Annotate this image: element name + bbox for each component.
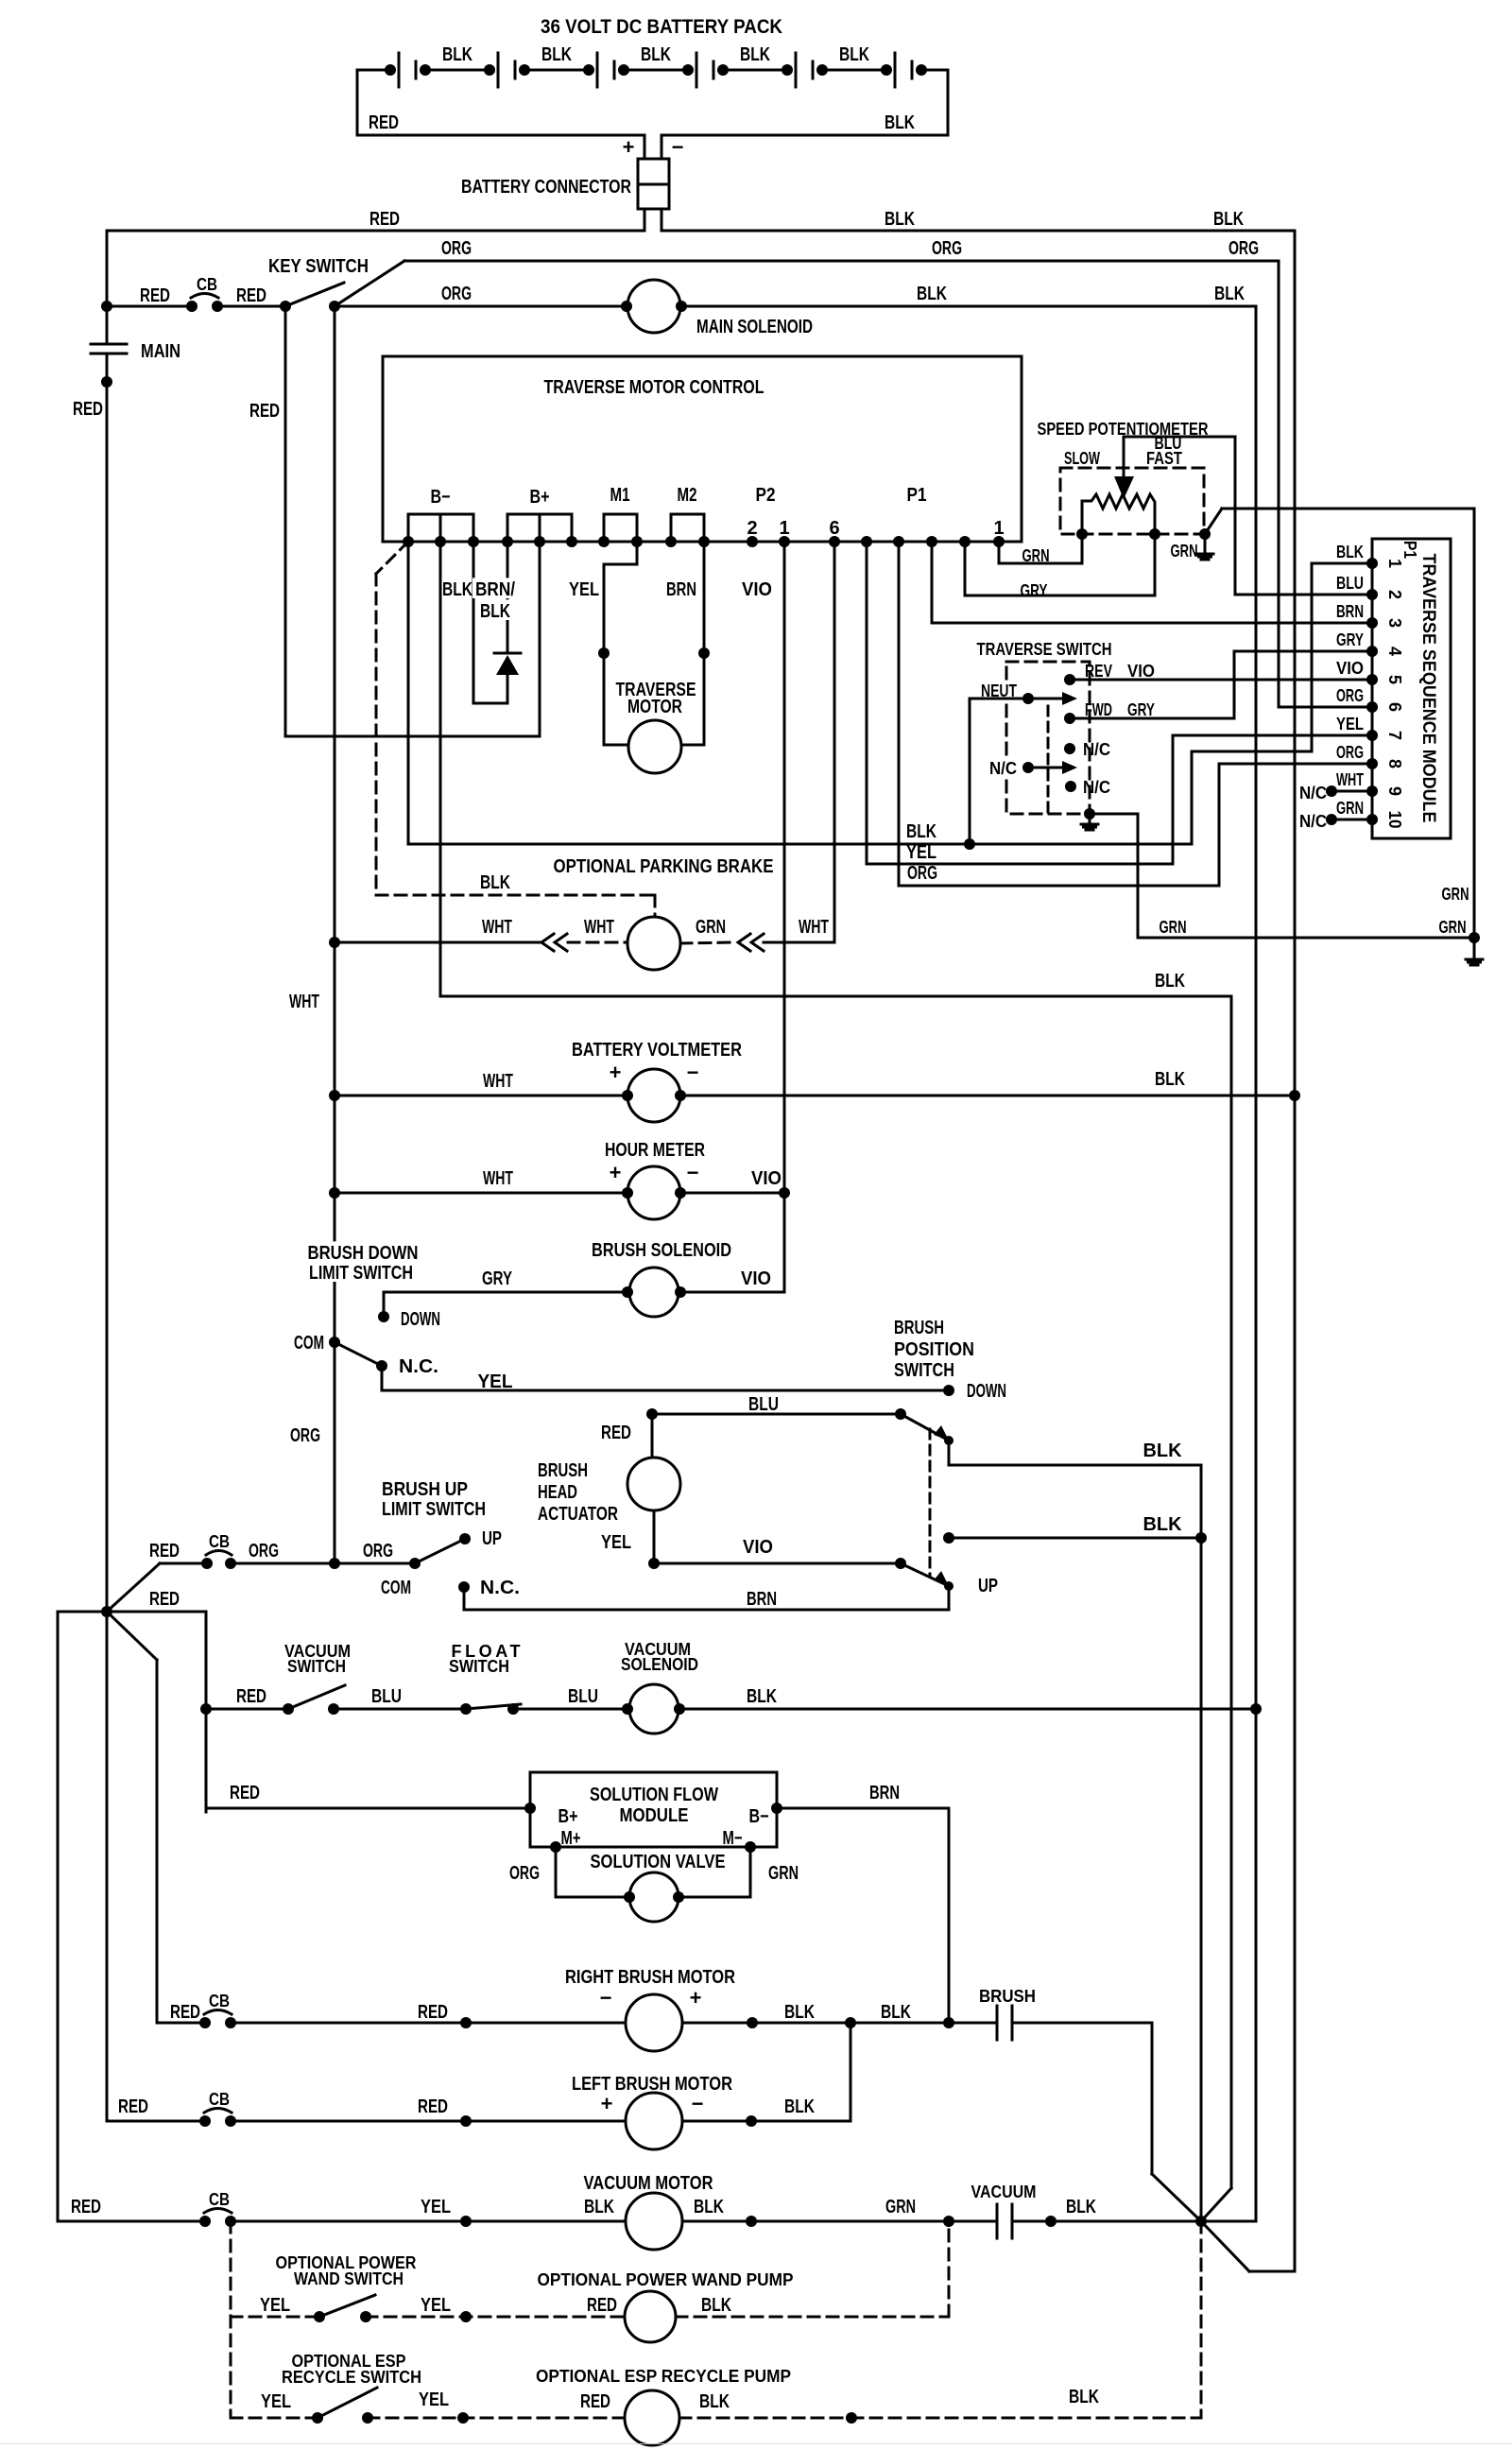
svg-text:ORG: ORG [290,1425,320,1446]
svg-text:ORG: ORG [441,238,472,259]
svg-text:N.C.: N.C. [399,1356,438,1377]
svg-text:N.C.: N.C. [480,1578,520,1598]
svg-text:BRN: BRN [869,1783,900,1803]
wire BLK voltmeter to battery negative [680,1095,1295,1097]
wire RED to solution flow and vacuum switch [107,1611,206,1613]
solution flow module box [530,1772,777,1847]
wire P1-6 vertical to parking brake [833,542,836,942]
svg-text:BRUSH UP: BRUSH UP [382,1479,468,1500]
svg-text:VIO: VIO [743,1537,773,1558]
battery cell B1 [398,53,401,87]
svg-text:ORG: ORG [1228,238,1259,259]
svg-text:−: − [600,1986,612,2010]
svg-text:SLOW: SLOW [1064,449,1100,468]
battery voltmeter [627,1069,680,1122]
svg-text:GRN: GRN [768,1863,799,1884]
wire battery interconnect BLK [420,64,431,76]
svg-text:WHT: WHT [799,917,829,938]
svg-text:VIO: VIO [1336,659,1364,678]
svg-text:YEL: YEL [421,2197,451,2217]
wire RED actuator [651,1414,654,1458]
wire BRN solution flow to brush junction [777,1807,949,1810]
module pin 7 YEL [1366,730,1378,741]
node BLK vacuum solenoid [1250,1703,1262,1715]
svg-text:BATTERY CONNECTOR: BATTERY CONNECTOR [461,177,631,198]
wire YEL dashed ESP [231,2417,318,2420]
svg-text:RED: RED [249,401,280,422]
svg-text:REV: REV [1085,662,1112,681]
svg-text:BLK: BLK [480,601,510,622]
svg-text:BLK: BLK [442,579,472,600]
svg-text:BLK: BLK [699,2391,730,2412]
svg-text:CB: CB [197,275,217,294]
wire ORG module pin 6 [1279,706,1372,709]
hour meter [627,1166,680,1219]
potentiometer R1 [1082,494,1155,534]
wire BRN P1 to module pin 3 [932,542,1372,623]
svg-text:3: 3 [1385,618,1404,628]
svg-text:GRN: GRN [696,917,726,938]
svg-text:6: 6 [829,518,839,539]
wire ORG key switch to main solenoid [335,305,627,308]
svg-text:GRY: GRY [1127,700,1155,719]
switch blade brush up [415,1540,463,1563]
svg-text:GRN: GRN [1442,885,1469,904]
switch pole COM brush up [409,1558,421,1569]
svg-text:−: − [672,135,684,159]
node pot fast [1149,528,1160,540]
wire RED left vertical [106,231,109,306]
wire BLK B- pin2 vertical [439,542,442,996]
wire GRY P1 to speed potentiometer [965,534,1155,595]
svg-text:DOWN: DOWN [967,1381,1006,1402]
svg-text:BLK: BLK [784,2002,815,2023]
svg-text:RED: RED [149,1541,180,1561]
svg-text:BLK: BLK [1214,284,1245,304]
svg-text:M+: M+ [561,1828,581,1849]
svg-text:RED: RED [71,2197,101,2217]
svg-text:LIMIT SWITCH: LIMIT SWITCH [382,1499,486,1520]
wire BLK right to left brush motor [850,2023,852,2121]
svg-text:BLK: BLK [839,44,869,65]
svg-text:FWD: FWD [1085,700,1112,719]
node ground bus [1469,932,1480,943]
module pin 5 VIO [1366,674,1378,685]
svg-text:B+: B+ [530,487,550,508]
svg-text:VIO: VIO [751,1168,782,1189]
svg-text:BLK: BLK [694,2197,724,2217]
wire battery positive RED [385,64,396,76]
svg-text:RED: RED [369,112,399,133]
svg-text:−: − [687,1061,699,1084]
terminal M1 [604,513,637,516]
wire VIO brush solenoid [680,1291,784,1294]
svg-text:YEL: YEL [419,2390,449,2410]
svg-text:BRN: BRN [1336,602,1364,621]
svg-text:N/C: N/C [1083,740,1110,759]
svg-text:RED: RED [580,2391,610,2412]
contact N/C upper [1064,743,1075,754]
node WHT brake junction [329,937,340,948]
node NEUT on BLK bus [964,838,975,850]
svg-text:BRN: BRN [747,1589,777,1610]
wire battery interconnect BLK [519,64,530,76]
svg-text:BLK: BLK [1069,2387,1099,2407]
wire BLK junction diagonal B- [1201,2188,1231,2221]
svg-text:YEL: YEL [569,579,599,600]
svg-text:BLK: BLK [885,209,915,230]
svg-text:1: 1 [1385,559,1404,568]
svg-text:MAIN: MAIN [141,341,180,362]
svg-text:RED: RED [73,399,103,420]
svg-text:BLU: BLU [1336,574,1364,593]
svg-text:9: 9 [1385,786,1404,796]
contact N/C lower [1065,781,1076,792]
contact UP brush up limit switch [459,1533,471,1544]
svg-text:WHT: WHT [1336,770,1364,789]
svg-text:WHT: WHT [482,917,512,938]
svg-text:YEL: YEL [421,2295,451,2316]
svg-text:ACTUATOR: ACTUATOR [538,1504,618,1525]
svg-text:BLK: BLK [1155,1069,1185,1090]
svg-text:UP: UP [482,1528,502,1549]
node pot slow [1076,528,1088,540]
svg-text:GRN: GRN [885,2197,916,2217]
svg-text:TRAVERSE SEQUENCE MODULE: TRAVERSE SEQUENCE MODULE [1418,554,1438,823]
wire ORG brush up [231,1562,415,1565]
wire GRN dashed brake [680,942,734,943]
svg-text:RED: RED [236,285,266,306]
svg-text:BLK: BLK [1143,1514,1183,1535]
svg-text:GRN: GRN [1160,918,1187,937]
svg-text:YEL: YEL [261,2391,291,2412]
svg-text:ORG: ORG [1336,743,1364,762]
vacuum switch [283,1703,294,1715]
wire ORG vertical to module pin 6 [1278,261,1280,707]
wire BLK junction to solenoid bus [1201,2220,1256,2223]
power wand pump [625,2291,676,2342]
diode D1 loop BRN/BLK [472,542,475,703]
svg-text:GRY: GRY [482,1268,512,1289]
node VIO hour meter [779,1187,790,1199]
wire RED to vacuum switch [206,1708,288,1711]
svg-text:RIGHT BRUSH MOTOR: RIGHT BRUSH MOTOR [565,1967,735,1988]
wire battery interconnect BLK [717,64,729,76]
svg-text:RED: RED [369,209,400,230]
svg-text:M−: M− [723,1828,743,1849]
svg-text:YEL: YEL [260,2295,290,2316]
ground traverse switch [1089,814,1091,823]
right brush motor [626,1994,682,2051]
svg-text:COM: COM [381,1578,411,1598]
contact FWD [1064,713,1075,724]
wire BRN brush position to N.C. [948,1586,951,1610]
battery cell B3 [596,53,599,87]
wire GRN pot to ground bus [1205,509,1222,534]
svg-text:BATTERY VOLTMETER: BATTERY VOLTMETER [572,1040,742,1061]
wire WHT switched vertical [334,306,336,1563]
wire BLK battery connector to right bus [661,209,663,231]
switch pole NEUT [978,681,1020,699]
svg-text:SWITCH: SWITCH [287,1657,346,1676]
svg-text:−: − [687,1161,699,1184]
svg-text:BRN: BRN [666,579,696,600]
brush solenoid [629,1268,679,1317]
svg-text:GRN: GRN [1336,799,1364,818]
module pin 2 BLU [1366,589,1378,600]
svg-text:RED: RED [236,1686,266,1707]
circuit breaker CB key switch [107,305,192,308]
wire BLK B- pin1 vertical [407,542,410,844]
node BLK main negative junction [1195,2216,1207,2227]
vacuum solenoid [629,1684,679,1734]
wire YEL vacuum motor [231,2220,626,2223]
wire BLK bus B- to module [408,843,1192,846]
circuit breaker CB vacuum motor [58,2220,205,2223]
terminal pins [403,536,414,547]
svg-text:GRN: GRN [1439,918,1467,937]
traverse sequence module box [1372,539,1451,838]
svg-text:+: + [610,1161,622,1184]
module pin 9 WHT [1366,785,1378,797]
svg-text:BLK: BLK [442,44,472,65]
wire YEL dashed ESP 2 [368,2417,625,2420]
svg-text:TRAVERSE SWITCH: TRAVERSE SWITCH [977,640,1112,659]
wire BLU vacuum to float switch [334,1708,466,1711]
wire WHT to parking brake [335,941,540,944]
svg-text:BLU: BLU [568,1686,598,1707]
svg-text:VIO: VIO [1127,662,1155,681]
svg-text:RED: RED [170,2002,200,2023]
wire BLU float to vacuum solenoid [513,1708,627,1711]
terminal B+ [507,513,572,516]
svg-text:B−: B− [749,1806,769,1827]
wire ORG P1 to module pin 8 [899,542,1372,886]
wire BLK vacuum connector to junction [1012,2220,1201,2223]
svg-text:BLK: BLK [784,2096,815,2117]
svg-text:OPTIONAL PARKING BRAKE: OPTIONAL PARKING BRAKE [554,856,774,877]
svg-text:MOTOR: MOTOR [627,697,682,717]
terminal B+ solution flow [524,1803,536,1814]
ground pot [1204,534,1207,552]
wire WHT module pin 9 N/C [1326,785,1337,797]
connector brake right [738,934,750,951]
svg-text:4: 4 [1385,647,1404,656]
switch blade brush position lower [895,1558,906,1569]
svg-text:DOWN: DOWN [401,1309,440,1330]
wire BLK B- lower bus [440,995,1231,998]
wire YEL dashed wand [231,2316,319,2319]
traverse switch link [1047,706,1050,812]
svg-text:M1: M1 [610,485,630,506]
svg-text:BLK: BLK [541,44,572,65]
svg-text:WHT: WHT [483,1168,513,1189]
svg-text:ORG: ORG [932,238,962,259]
svg-text:VACUUM: VACUUM [971,2183,1037,2201]
circuit breaker CB brush up [201,1558,213,1569]
left brush motor [626,2093,682,2149]
wire BLK dashed B- pin1 to parking brake [376,542,408,574]
svg-text:YEL: YEL [601,1532,631,1553]
svg-text:RED: RED [587,2295,617,2316]
svg-text:RED: RED [149,1589,180,1610]
svg-text:YEL: YEL [1336,715,1364,733]
wire BLK left brush motor [682,2120,850,2123]
svg-text:7: 7 [1385,731,1404,740]
wire RED to right brush motor CB [107,1612,157,1660]
svg-text:ORG: ORG [1336,686,1364,705]
svg-text:CB: CB [209,2190,230,2209]
svg-text:BLK: BLK [917,284,947,304]
module pin 10 GRN [1366,814,1378,825]
svg-text:RED: RED [418,2096,448,2117]
wire BLU actuator [646,1408,658,1420]
wire VIO REV to module pin 5 [1070,679,1372,682]
contact REV [1064,674,1075,685]
wire battery negative BLK [916,64,927,76]
wire BLK brush position upper [948,1441,951,1465]
svg-text:5: 5 [1385,675,1404,684]
svg-text:VIO: VIO [742,579,772,600]
svg-text:WHT: WHT [289,992,319,1012]
contact DOWN brush position switch [943,1385,954,1396]
node WHT hour meter [329,1187,340,1199]
svg-text:MAIN SOLENOID: MAIN SOLENOID [696,317,813,337]
svg-text:BLK: BLK [740,44,770,65]
terminal M- solution flow [745,1841,756,1853]
svg-text:UP: UP [978,1576,998,1596]
traverse motor control box [383,356,1022,542]
terminal B- solution flow [771,1803,782,1814]
svg-text:HOUR METER: HOUR METER [605,1140,705,1161]
svg-text:SOLUTION VALVE: SOLUTION VALVE [591,1852,726,1872]
wire RED to vacuum motor CB [58,1611,107,1613]
svg-text:N/C: N/C [1083,778,1110,797]
wire GRN P1-1 to speed potentiometer [999,534,1082,563]
battery cell B5 [795,53,798,87]
svg-text:BRUSH SOLENOID: BRUSH SOLENOID [592,1240,731,1261]
svg-text:1: 1 [779,518,789,539]
svg-text:HEAD: HEAD [538,1482,577,1503]
traverse link brush position [929,1429,932,1577]
svg-text:GRN: GRN [1022,546,1050,565]
svg-text:ORG: ORG [249,1541,279,1561]
svg-text:BLK: BLK [701,2295,731,2316]
svg-text:RED: RED [418,2002,448,2023]
svg-text:GRY: GRY [1021,581,1048,600]
terminal M2 [671,513,704,516]
wire YEL dashed wand 2 [366,2316,625,2319]
svg-text:BLK: BLK [1066,2197,1096,2217]
solution valve [629,1872,679,1922]
page edge artifact [0,2443,1512,2444]
svg-text:BLK: BLK [584,2197,614,2217]
svg-text:TRAVERSE MOTOR CONTROL: TRAVERSE MOTOR CONTROL [544,377,765,398]
wire RED to brush up CB [107,1563,160,1612]
connector brake left [541,934,554,951]
wire BLU wiper to module pin 2 [1124,437,1372,595]
svg-text:P2: P2 [756,485,776,506]
wire YEL M1 to traverse motor [604,542,637,745]
node BLK brush position [1195,1532,1207,1544]
svg-text:RED: RED [118,2096,148,2117]
svg-text:1: 1 [993,518,1004,539]
main solenoid coil [627,280,680,333]
traverse switch box [1006,662,1090,814]
svg-text:BLK: BLK [1213,209,1244,230]
svg-text:BRUSH: BRUSH [894,1318,944,1338]
battery cell B6 [894,53,897,87]
node YEL actuator [648,1558,660,1569]
wire BLK junction to battery negative [1201,2221,1249,2271]
svg-text:FAST: FAST [1146,449,1182,468]
wire NEUT to BLK bus [970,699,1028,844]
battery cell B4 [696,53,698,87]
svg-text:BLK: BLK [1155,971,1185,992]
svg-text:MODULE: MODULE [620,1805,689,1826]
contact UP brush position switch [944,1581,954,1591]
battery cell B2 [497,53,500,87]
terminal M+ solution flow [550,1841,561,1853]
wire ORG key switch upper [404,260,1279,263]
svg-text:−: − [692,2092,704,2115]
wire GRN solution valve [749,1847,752,1897]
module pin 6 ORG [1366,701,1378,713]
svg-text:SWITCH: SWITCH [449,1657,509,1676]
svg-text:2: 2 [1385,590,1404,599]
brush down limit switch label [305,1241,421,1262]
wire BRN M2 to traverse motor [703,542,706,745]
svg-text:BLU: BLU [371,1686,402,1707]
svg-text:+: + [601,2092,613,2115]
svg-text:RED: RED [230,1783,260,1803]
svg-text:BRN/: BRN/ [475,579,515,600]
wire RED key switch to B+ [284,306,287,736]
svg-text:OPTIONAL POWER WAND PUMP: OPTIONAL POWER WAND PUMP [538,2270,794,2289]
svg-text:B−: B− [431,487,451,508]
wire RED to left brush motor CB [106,1612,109,2121]
wire GRN ground bus [1138,937,1474,940]
vacuum motor [626,2193,682,2250]
switch blade brush position upper [895,1408,906,1420]
diode D1 [494,652,521,655]
circuit breaker CB right brush [157,2022,205,2025]
svg-text:P1: P1 [907,485,927,506]
wire YEL P1 to module pin 7 [867,542,1372,864]
module pin 4 GRY [1366,646,1378,657]
svg-text:8: 8 [1385,759,1404,768]
svg-text:WAND SWITCH: WAND SWITCH [294,2269,404,2288]
svg-text:GRN: GRN [1171,542,1198,561]
svg-text:SOLENOID: SOLENOID [621,1655,698,1674]
svg-text:P1: P1 [1400,541,1419,559]
svg-text:POSITION: POSITION [894,1339,974,1360]
svg-text:2: 2 [747,518,757,539]
node RED main junction [101,1606,112,1617]
svg-text:WHT: WHT [483,1071,513,1092]
terminal B- [408,513,473,516]
svg-text:BLK: BLK [881,2002,911,2023]
svg-text:SOLUTION FLOW: SOLUTION FLOW [590,1785,718,1805]
node battery + junction [101,301,112,312]
svg-text:VACUUM MOTOR: VACUUM MOTOR [584,2173,713,2194]
svg-text:N/C: N/C [989,759,1017,778]
wire BLK brush position middle [943,1532,954,1544]
svg-text:RED: RED [140,285,170,306]
svg-text:BRUSH: BRUSH [979,1987,1036,2006]
wire dashed optional return [1200,2221,1203,2418]
ESP recycle switch [312,2412,323,2424]
